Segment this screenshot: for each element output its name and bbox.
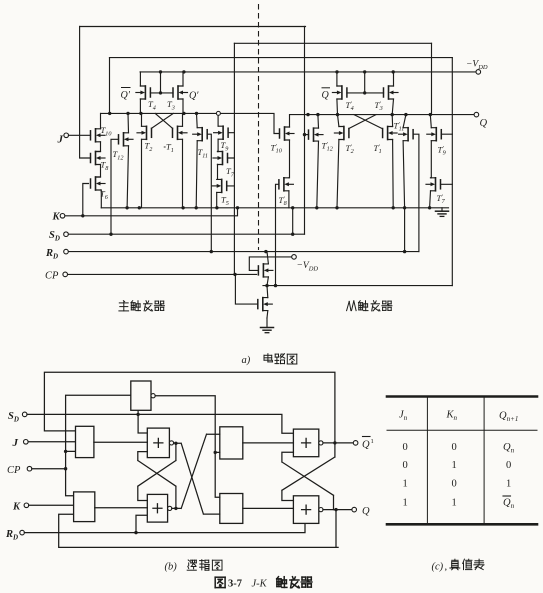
wire T11 gate down to RD bbox=[207, 134, 211, 251]
gate G0 NAND clock bbox=[131, 381, 151, 410]
wire T11p gate down to RD end bbox=[413, 134, 419, 251]
svg-text:1: 1 bbox=[452, 498, 457, 509]
transistor T1p bbox=[383, 127, 398, 140]
wire CPbar line bbox=[263, 285, 452, 287]
svg-text:1: 1 bbox=[452, 460, 457, 471]
gate G4 master NOR + bbox=[147, 494, 167, 522]
input CP logic bbox=[27, 466, 32, 471]
transistor T3p bbox=[384, 86, 399, 99]
transistor T3 bbox=[173, 86, 188, 99]
svg-text:a): a) bbox=[242, 355, 251, 366]
wire G7 output to Qbar bbox=[323, 442, 353, 444]
wire T1 drain/source bbox=[182, 113, 184, 207]
gate G2 K-input bbox=[74, 492, 95, 522]
wire line1 right end down to SD end (T12p gate) bbox=[304, 27, 306, 235]
svg-text:Q: Q bbox=[362, 506, 370, 517]
section divider dashed line between master and slave bbox=[258, 4, 260, 250]
transistor T2 bbox=[137, 126, 152, 139]
node G3 output bbox=[174, 442, 177, 445]
wire RD junction up to bottom rail bbox=[404, 208, 406, 252]
wire T9 T7 T5 gate taps bbox=[227, 133, 235, 186]
svg-text:Q: Q bbox=[362, 440, 370, 451]
transistor T5 bbox=[212, 179, 227, 192]
wire SD to NAND and G3 bbox=[138, 410, 147, 433]
wire line1 left end to T8 gate bbox=[80, 27, 91, 159]
wire T10pp T8pp stack bbox=[288, 115, 291, 208]
wire T9p T7p gate taps bbox=[441, 134, 453, 184]
svg-text:1: 1 bbox=[403, 479, 408, 490]
svg-text:J: J bbox=[57, 134, 64, 146]
wire T2 drain/source bbox=[141, 113, 143, 207]
wire SD to T12 gate bbox=[111, 139, 119, 234]
input K logic bbox=[24, 503, 29, 508]
wire X1 master latch cross-coupling bbox=[138, 443, 176, 501]
transistor T6 bbox=[91, 177, 106, 190]
svg-text:1: 1 bbox=[371, 438, 374, 445]
wire T12p gate tap bbox=[305, 134, 309, 136]
wire G2 out to G4 bbox=[95, 507, 148, 509]
wire feedback line3 bbox=[110, 57, 453, 59]
wire T12 drain/source bbox=[127, 113, 128, 207]
transistor T11p bbox=[399, 128, 414, 141]
truth table header underline bbox=[387, 429, 537, 431]
wire feedback line1 top bbox=[80, 26, 306, 28]
gate G5 slave pass bbox=[220, 427, 243, 459]
transistor T8 bbox=[91, 152, 106, 165]
input K line bbox=[65, 208, 238, 216]
transistor T1 bbox=[173, 126, 188, 139]
transistor T10pp bbox=[280, 127, 295, 140]
wire X3 slave latch cross-coupling bbox=[282, 443, 335, 501]
wire Tc2 drain/source bbox=[266, 286, 269, 318]
input RD logic bbox=[20, 530, 25, 535]
wire G6 out to G8 bbox=[243, 507, 294, 509]
wire T8pp gate down to CPbar bbox=[276, 184, 279, 285]
wire T4 drain/source bbox=[139, 72, 141, 114]
wire T9 T7 T5 stack bbox=[217, 115, 218, 207]
transistor T9 bbox=[214, 126, 229, 139]
wire line3 right end down V1p (T9p T7p gates, CPbar) bbox=[451, 58, 453, 286]
svg-text:CP: CP bbox=[45, 271, 59, 282]
svg-text:3-7: 3-7 bbox=[228, 579, 242, 590]
wire T10 T8 T6 stack bbox=[96, 113, 102, 207]
wire J to T10 gate bbox=[69, 134, 91, 136]
wire G1 out to G3 bbox=[94, 441, 147, 443]
ground symbol slave bbox=[441, 208, 443, 211]
svg-text:K: K bbox=[12, 502, 21, 513]
wire T3p drain/source bbox=[392, 72, 393, 115]
terminal Qbar output bbox=[353, 441, 358, 446]
svg-text:(c): (c) bbox=[432, 562, 444, 573]
wire feedback line2 bbox=[234, 42, 431, 44]
gate G8 slave NOR + bbox=[293, 496, 318, 524]
wire line2 right end down to slave rail bbox=[431, 43, 433, 114]
transistor T2p bbox=[334, 127, 349, 140]
wire T3 drain/source bbox=[182, 72, 184, 114]
svg-text:1: 1 bbox=[403, 498, 408, 509]
gate G7 slave NOR + bbox=[293, 429, 318, 457]
wire Tc1 drain to RD bbox=[267, 252, 268, 286]
wire line3 left end down to master rail bbox=[109, 58, 111, 114]
svg-text:Q: Q bbox=[322, 90, 330, 101]
wire master cross coupling X bbox=[152, 113, 174, 128]
gate G3 master NOR + bbox=[147, 428, 169, 458]
node bottom rail junctions bbox=[125, 206, 128, 209]
wire X2 to slave pass gates bbox=[176, 443, 220, 514]
svg-text:Q′: Q′ bbox=[189, 91, 199, 102]
figure caption 3-7 bbox=[215, 576, 225, 578]
input CP line bbox=[68, 273, 257, 275]
svg-text:0: 0 bbox=[506, 460, 511, 471]
terminal -VDD top right bbox=[476, 70, 481, 75]
wire CP vertical distribution bbox=[66, 395, 131, 496]
svg-text:Q: Q bbox=[480, 118, 488, 129]
transistor T7p bbox=[426, 178, 441, 191]
svg-text:J-K: J-K bbox=[252, 579, 268, 590]
input RD line bbox=[68, 251, 419, 253]
svg-text:Q′: Q′ bbox=[121, 90, 131, 101]
transistor T4 bbox=[136, 86, 151, 99]
input SD line bbox=[68, 233, 304, 235]
wire common bottom rail bbox=[101, 207, 448, 209]
input SD logic bbox=[22, 412, 27, 417]
terminal Q output bbox=[474, 112, 479, 117]
wire SD junction up to bottom rail bbox=[292, 208, 294, 234]
svg-text:0: 0 bbox=[403, 442, 408, 453]
transistor T8pp bbox=[279, 178, 294, 191]
transistor Tc2 bbox=[258, 298, 273, 311]
svg-text:J: J bbox=[12, 437, 19, 449]
transistor T7 bbox=[213, 152, 228, 165]
terminal -VDD mid stub bbox=[292, 255, 297, 260]
wire Tc2 gate from CP bbox=[235, 274, 257, 304]
transistor T11 bbox=[193, 128, 208, 141]
svg-text:0: 0 bbox=[403, 460, 408, 471]
wire T2p drain/source bbox=[337, 115, 339, 208]
terminal Q output logic bbox=[352, 507, 357, 512]
transistor T12p bbox=[309, 128, 324, 141]
wire G5 out to G7 bbox=[243, 442, 294, 444]
truth table bottom rule bbox=[387, 523, 537, 526]
svg-text:(b): (b) bbox=[165, 562, 178, 573]
wire K to T6 gate bbox=[83, 184, 89, 216]
transistor T9p bbox=[427, 128, 442, 141]
wire master latch rail bbox=[101, 113, 280, 133]
svg-text:0: 0 bbox=[452, 442, 457, 453]
wire slave latch gate tie bbox=[347, 72, 384, 93]
gate G6 slave pass bbox=[220, 494, 243, 524]
wire T9p T7p stack bbox=[430, 115, 432, 208]
wire latch gate tie bbox=[150, 72, 173, 93]
gate G1 J-input bbox=[76, 426, 94, 457]
wire T4p drain/source bbox=[336, 72, 339, 115]
truth table column separators bbox=[427, 398, 484, 523]
node G4 output bbox=[174, 507, 177, 510]
wire -VDD supply rail bbox=[140, 71, 476, 73]
wire logic Qbar feedback top frame bbox=[44, 372, 335, 443]
caption slave flipflop (cong chu fa qi) bbox=[347, 301, 350, 310]
wire slave cross coupling X bbox=[349, 115, 382, 129]
wire T11p drain/source bbox=[403, 115, 406, 208]
wire T1p drain/source bbox=[392, 115, 393, 208]
node master latch rail junctions bbox=[108, 112, 111, 115]
transistor T10 bbox=[91, 129, 106, 142]
wire NAND out CPbar distribution bbox=[155, 396, 220, 498]
wire T12p drain/source bbox=[317, 115, 319, 208]
wire logic Q feedback bottom frame bbox=[59, 509, 338, 547]
node open junction T9 drain bbox=[216, 111, 220, 115]
wire G8 output to Q bbox=[323, 509, 352, 511]
transistor T12 bbox=[119, 133, 134, 146]
transistor Tc1 bbox=[258, 264, 273, 277]
svg-text:1: 1 bbox=[506, 479, 511, 490]
svg-text:K: K bbox=[52, 212, 61, 223]
input J logic bbox=[24, 440, 29, 445]
wire Tc1 gate loop to -VDD stub bbox=[249, 257, 291, 271]
node slave latch rail junctions bbox=[306, 113, 309, 116]
wire RD to G4 bbox=[136, 515, 147, 532]
svg-text:0: 0 bbox=[452, 479, 457, 490]
truth table top rule bbox=[387, 395, 537, 398]
transistor T4p bbox=[332, 86, 347, 99]
wire clock vertical V1 (line2 left, T9 T7 T5 gates, CP) bbox=[233, 43, 235, 274]
wire T11 drain/source bbox=[196, 113, 197, 207]
terminal J input bbox=[64, 133, 69, 138]
wire slave latch rail to Q bbox=[291, 114, 474, 116]
caption master flipflop (zhu chu fa qi) bbox=[123, 300, 124, 303]
svg-text:,: , bbox=[445, 562, 448, 573]
ground symbol CP inverter bbox=[266, 318, 268, 328]
svg-text:CP: CP bbox=[7, 465, 21, 476]
